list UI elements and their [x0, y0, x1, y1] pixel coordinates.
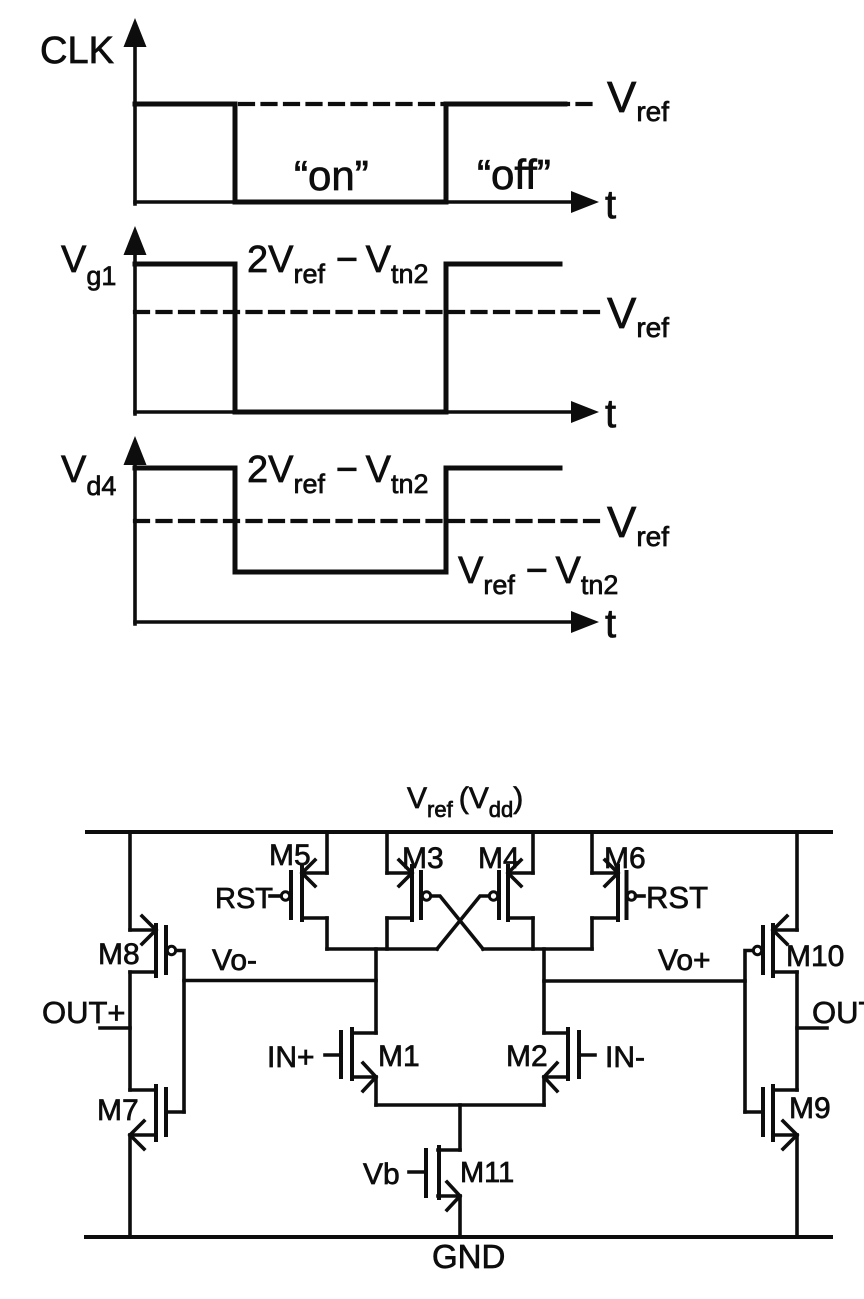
svg-text:Vo-: Vo- — [212, 944, 257, 977]
wire: differential pair tail bus — [376, 1103, 544, 1107]
svg-text:M5: M5 — [269, 839, 311, 872]
svg-text:Vd4: Vd4 — [61, 449, 116, 501]
wire: M7 source to ground rail — [128, 1135, 132, 1237]
transistor M11 — [409, 1147, 460, 1237]
wire: M10/M9 gate tie — [745, 951, 753, 1113]
wire: right bus down to M2 drain — [542, 949, 546, 1033]
ground rail — [86, 1235, 831, 1239]
svg-text:Vg1: Vg1 — [61, 239, 116, 291]
svg-text:2Vref − Vtn2: 2Vref − Vtn2 — [247, 449, 428, 499]
svg-text:M10: M10 — [786, 940, 844, 973]
CLK waveform panel: horizontal time axis — [135, 200, 574, 204]
node Vo- wire — [184, 979, 376, 983]
node Vo+ wire — [544, 979, 745, 983]
svg-text:“off”: “off” — [477, 151, 551, 198]
transistor M5 — [270, 860, 327, 949]
wire: tail bus to M11 drain — [458, 1105, 462, 1150]
svg-text:M3: M3 — [402, 842, 444, 875]
wire: Vdd to M5 source — [325, 832, 329, 873]
svg-text:IN-: IN- — [605, 1041, 645, 1074]
svg-text:M8: M8 — [98, 938, 140, 971]
Vd4 waveform trace — [135, 468, 560, 572]
svg-text:Vref (Vdd): Vref (Vdd) — [407, 782, 523, 822]
wire: M10 drain to M9 drain — [795, 972, 799, 1090]
svg-text:M7: M7 — [97, 1094, 139, 1127]
wire: left drain bus — [327, 947, 437, 951]
wire: left bus down to M1 drain — [374, 949, 378, 1033]
svg-text:M9: M9 — [789, 1092, 831, 1125]
svg-text:“on”: “on” — [294, 152, 369, 199]
transistor M8 — [130, 916, 176, 976]
svg-text:M1: M1 — [378, 1040, 420, 1073]
wire: left branch Vdd to M8 source — [128, 832, 132, 930]
Vg1 waveform panel: dashed Vref level — [135, 310, 599, 314]
svg-text:M4: M4 — [478, 842, 520, 875]
svg-text:IN+: IN+ — [267, 1041, 315, 1074]
wire: cross-couple gate of M4 to left drain bus — [437, 896, 489, 949]
Vd4 waveform panel: vertical axis — [133, 460, 137, 624]
svg-text:OUT-: OUT- — [812, 995, 864, 1030]
transistor M9 — [745, 1086, 797, 1149]
svg-text:M6: M6 — [604, 842, 646, 875]
svg-text:RST: RST — [215, 883, 273, 915]
transistor M4 — [489, 832, 533, 949]
CLK waveform panel: dashed Vref level — [240, 102, 599, 106]
svg-text:M2: M2 — [506, 1040, 548, 1073]
Vg1 waveform panel: vertical axis — [133, 250, 137, 414]
svg-text:2Vref − Vtn2: 2Vref − Vtn2 — [247, 239, 428, 289]
transistor M1 — [325, 1029, 376, 1105]
svg-text:Vref: Vref — [607, 73, 669, 127]
svg-text:M11: M11 — [460, 1157, 514, 1189]
transistor M10 — [753, 916, 797, 976]
node OUT+ stub — [100, 1026, 130, 1030]
svg-text:RST: RST — [646, 880, 708, 915]
svg-text:Vref: Vref — [607, 289, 669, 343]
Vg1 waveform panel: horizontal time axis — [135, 410, 574, 414]
wire: M8/M7 gate tie — [176, 951, 184, 1113]
wire: right branch Vdd to M10 source — [795, 832, 799, 930]
wire: right drain bus — [483, 947, 592, 951]
svg-text:OUT+: OUT+ — [42, 995, 126, 1030]
svg-text:GND: GND — [432, 1238, 505, 1275]
svg-text:Vb: Vb — [363, 1158, 400, 1191]
Vg1 waveform trace — [135, 264, 560, 412]
svg-text:Vref: Vref — [607, 498, 669, 552]
wire: M9 source to ground rail — [795, 1135, 799, 1237]
svg-text:CLK: CLK — [40, 30, 114, 72]
wire: cross-couple gate of M3 to right drain bus — [431, 896, 483, 949]
Vd4 waveform panel: dashed Vref level — [135, 519, 599, 523]
CLK waveform panel: vertical axis — [133, 42, 137, 204]
transistor M3 — [387, 860, 431, 949]
CLK waveform trace — [135, 104, 565, 202]
transistor M2 — [544, 1029, 595, 1105]
node OUT- stub — [797, 1026, 827, 1030]
svg-text:t: t — [605, 392, 616, 436]
transistor M6 — [592, 832, 644, 949]
svg-text:t: t — [605, 602, 616, 646]
svg-text:Vref − Vtn2: Vref − Vtn2 — [458, 550, 618, 600]
svg-text:Vo+: Vo+ — [658, 944, 711, 977]
power rail Vref (Vdd) — [87, 830, 831, 834]
transistor M7 — [130, 1086, 184, 1149]
wire: Vdd to M3 source — [385, 832, 389, 873]
svg-text:t: t — [605, 183, 616, 227]
wire: M8 drain to M7 drain — [128, 972, 132, 1090]
Vd4 waveform panel: horizontal time axis — [135, 620, 574, 624]
